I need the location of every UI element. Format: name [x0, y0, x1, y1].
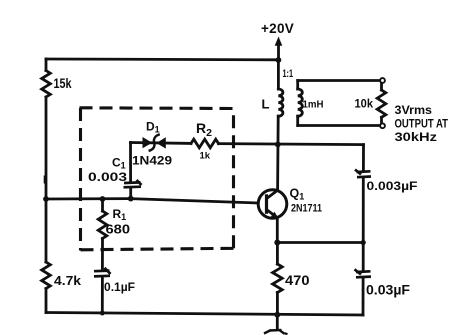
junction 0.1uF bottom node — [100, 311, 105, 316]
svg-text:470: 470 — [285, 273, 310, 288]
wire left rail lower segment — [45, 289, 48, 313]
svg-text:L: L — [262, 97, 270, 112]
svg-text:2N1711: 2N1711 — [291, 203, 322, 215]
wire +20V supply stem — [277, 44, 280, 61]
wire main vertical collector feed upper — [277, 60, 280, 89]
wire 10k stub top — [380, 82, 383, 91]
output terminal circle top — [380, 78, 385, 83]
wire base node horizontal — [46, 199, 258, 203]
junction ground node — [274, 312, 280, 318]
junction emitter node — [274, 240, 280, 246]
resistor R1 — [98, 211, 107, 239]
svg-text:1N429: 1N429 — [132, 156, 172, 168]
wire feedback horizontal left of R2 — [131, 141, 192, 145]
wire 0.1uF to bottom rail — [101, 278, 104, 314]
ground symbol — [264, 330, 288, 334]
svg-text:1:1: 1:1 — [283, 68, 294, 80]
wire secondary stub bottom — [296, 116, 299, 125]
wire right branch middle — [362, 178, 365, 270]
junction right branch emitter crossing — [361, 240, 366, 245]
power +20V arrowhead — [275, 37, 283, 46]
capacitor 0.1uF plates — [94, 268, 111, 277]
svg-text:0.03µF: 0.03µF — [366, 282, 410, 297]
svg-text:0.003: 0.003 — [88, 172, 127, 184]
svg-text:30kHz: 30kHz — [395, 130, 438, 144]
junction feedback/collector crossing — [275, 142, 281, 148]
diode D1 — [143, 134, 166, 151]
svg-text:10k: 10k — [355, 99, 374, 111]
junction C1 bottom node — [128, 196, 134, 202]
resistor 470 — [273, 264, 283, 293]
transistor Q1 — [258, 190, 287, 219]
wire 470 branch lower — [276, 293, 279, 315]
wire R1 branch to 0.1uF — [101, 239, 104, 269]
wire left rail upper segment — [45, 59, 48, 71]
output terminal circle bottom — [380, 123, 385, 128]
wire R1 branch upper — [101, 199, 104, 211]
capacitor C1 plates — [124, 180, 142, 187]
resistor 4.7k — [42, 262, 51, 289]
wire 10k stub bottom — [380, 117, 383, 124]
resistor R2 — [191, 139, 219, 148]
svg-text:1k: 1k — [200, 151, 211, 162]
wire 470 branch upper — [276, 243, 279, 265]
svg-text:+20V: +20V — [261, 21, 294, 36]
svg-text:0.1µF: 0.1µF — [104, 282, 135, 294]
wire left rail ink wobble — [44, 176, 47, 184]
wire main vertical collector feed lower — [276, 116, 279, 190]
svg-text:0.003µF: 0.003µF — [367, 181, 418, 193]
junction supply node — [276, 57, 282, 63]
svg-text:15k: 15k — [54, 76, 72, 91]
wire C1 branch upper — [129, 143, 132, 182]
wire feedback horizontal right of R2 to right branch — [219, 144, 364, 145]
wire bottom horizontal rail — [46, 313, 363, 316]
junction R1 top node — [100, 196, 106, 202]
svg-text:3Vrms: 3Vrms — [395, 103, 433, 117]
resistor 15k — [42, 71, 51, 98]
dashed feedback network box — [80, 108, 235, 251]
wire output loop bottom — [298, 124, 380, 127]
inductor 1mH secondary winding — [298, 89, 303, 116]
capacitor 0.03uF plates — [355, 269, 372, 277]
wire ground stem — [276, 315, 279, 329]
svg-text:4.7k: 4.7k — [54, 273, 82, 288]
svg-text:OUTPUT AT: OUTPUT AT — [395, 117, 449, 131]
capacitor 0.003uF plates — [355, 170, 371, 178]
junction left rail base node — [43, 196, 49, 202]
wire secondary stub top — [296, 81, 299, 90]
inductor L primary winding — [278, 89, 283, 116]
wire C1 branch lower — [129, 189, 132, 200]
wire right branch upper (to 0.003uF) — [362, 145, 365, 171]
wire right branch lower (below 0.03uF) — [362, 279, 365, 315]
resistor 10k — [377, 90, 386, 117]
wire emitter node horizontal — [277, 241, 363, 244]
wire emitter vertical — [276, 217, 279, 242]
svg-text:680: 680 — [106, 223, 131, 237]
wire left rail middle segment — [45, 97, 48, 262]
wire top horizontal from left rail to supply node — [46, 58, 279, 62]
svg-text:1mH: 1mH — [303, 99, 324, 110]
wire output loop top — [298, 79, 380, 82]
